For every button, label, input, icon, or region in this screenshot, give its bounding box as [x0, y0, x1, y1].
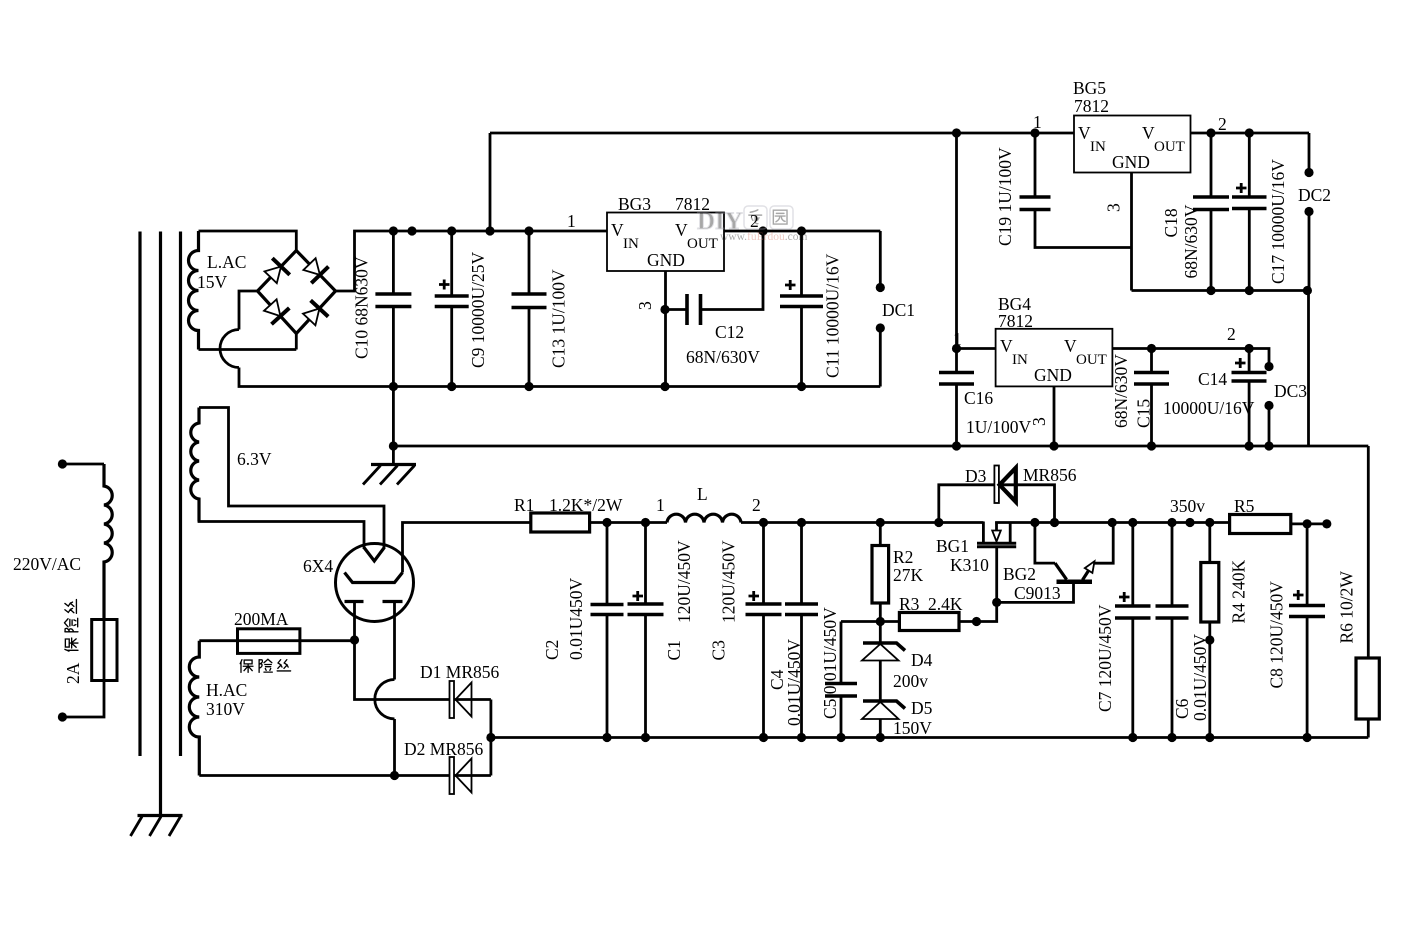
- resistor R1: [531, 513, 590, 532]
- capacitor C2: [602, 518, 611, 527]
- svg-text:C16: C16: [964, 388, 993, 408]
- svg-text:3: 3: [635, 301, 655, 310]
- regulator U BG4 7812: [996, 329, 1113, 387]
- svg-text:C12: C12: [715, 322, 744, 342]
- svg-text:C15: C15: [1134, 399, 1154, 428]
- svg-text:200MA: 200MA: [234, 609, 289, 629]
- label 保险丝: [240, 659, 290, 672]
- svg-text:BG2: BG2: [1003, 564, 1036, 584]
- svg-text:C1: C1: [664, 640, 684, 660]
- svg-text:BG1: BG1: [936, 536, 969, 556]
- capacitor C12: [687, 294, 701, 325]
- capacitor C15: [1147, 344, 1156, 353]
- svg-text:OUT: OUT: [1154, 139, 1185, 155]
- svg-text:27K: 27K: [893, 565, 924, 585]
- svg-text:D5: D5: [911, 698, 933, 718]
- capacitor C10: [389, 226, 398, 235]
- diode D2 MR856: [450, 757, 491, 794]
- H.AC bottom wire: [390, 771, 399, 780]
- svg-text:R1: R1: [514, 495, 534, 515]
- svg-text:C11 10000U/16V: C11 10000U/16V: [823, 253, 843, 378]
- wire: [62, 681, 104, 718]
- BG5 out wire: [1191, 132, 1310, 135]
- D1/D2 join to bottom rail: [486, 733, 495, 742]
- winding H.AC 310V: [189, 641, 199, 776]
- wire top bus to bridge: [199, 231, 297, 251]
- svg-text:H.AC: H.AC: [206, 680, 247, 700]
- svg-text:R6 10/2W: R6 10/2W: [1337, 571, 1357, 644]
- svg-text:2: 2: [752, 495, 761, 515]
- capacitor C5: [836, 733, 845, 742]
- wire 6.3V bottom to tube plate left: [199, 499, 364, 550]
- capacitor C1 (electrolytic): [641, 518, 650, 527]
- svg-text:7812: 7812: [1074, 96, 1109, 116]
- svg-text:R3: R3: [899, 594, 920, 614]
- gate feed wire C5-R3: [876, 617, 885, 626]
- cathode output wire to R1: [403, 523, 531, 573]
- svg-text:68N/630V: 68N/630V: [686, 347, 760, 367]
- svg-text:BG5: BG5: [1073, 78, 1106, 98]
- wire bridge left corner down with hop over winding wire: [239, 291, 258, 330]
- svg-text:7812: 7812: [998, 311, 1033, 331]
- svg-text:2.4K: 2.4K: [928, 594, 963, 614]
- transformer core: [140, 232, 181, 816]
- svg-text:C5 0.01U/450V: C5 0.01U/450V: [820, 607, 840, 719]
- diode bottom-right (cathode bar toward right corner): [311, 300, 329, 316]
- svg-text:0.01U/450V: 0.01U/450V: [784, 639, 804, 726]
- ground (transformer core): [131, 816, 183, 837]
- capacitor C7 (electrolytic): [1128, 518, 1137, 527]
- svg-text:C8 120U/450V: C8 120U/450V: [1266, 581, 1286, 689]
- ground rail: [389, 441, 398, 450]
- svg-text:C3: C3: [709, 640, 729, 661]
- svg-text:1: 1: [953, 329, 962, 349]
- svg-text:C2: C2: [542, 640, 562, 660]
- diode top-left (cathode bar toward top corner): [272, 258, 289, 275]
- svg-text:220V/AC: 220V/AC: [13, 554, 81, 574]
- svg-text:120U/450V: 120U/450V: [674, 540, 694, 623]
- BG5 bottom rail: [1132, 291, 1310, 447]
- svg-text:DC1: DC1: [882, 300, 915, 320]
- B+ wire: [590, 521, 1230, 524]
- svg-text:310V: 310V: [206, 699, 245, 719]
- svg-text:C18: C18: [1161, 208, 1181, 237]
- transistor BG1 K310 (FET): [977, 522, 1016, 603]
- wire winding bottom to bridge bottom: [199, 334, 297, 350]
- DC2 output terminals: [1308, 133, 1311, 291]
- capacitor C13: [524, 226, 533, 235]
- upper bus wire: [490, 132, 1074, 135]
- inductor L: [667, 514, 741, 522]
- svg-text:IN: IN: [1090, 139, 1106, 155]
- DC3 output terminals: [1264, 362, 1273, 371]
- pin 3 gnd wire: [660, 305, 669, 314]
- svg-text:D2 MR856: D2 MR856: [404, 739, 483, 759]
- riser to upper bus: [485, 226, 494, 235]
- AC input terminal top: [58, 459, 67, 468]
- diode D3 MR856: [934, 518, 943, 527]
- svg-text:C7 120U/450V: C7 120U/450V: [1095, 604, 1115, 712]
- primary winding 220V: [104, 464, 112, 620]
- svg-text:C17 10000U/16V: C17 10000U/16V: [1268, 159, 1288, 284]
- svg-text:C13 1U/100V: C13 1U/100V: [549, 269, 569, 368]
- svg-text:200v: 200v: [893, 671, 928, 691]
- svg-text:K310: K310: [950, 555, 989, 575]
- svg-text:6.3V: 6.3V: [237, 449, 272, 469]
- svg-text:C9013: C9013: [1014, 583, 1061, 603]
- 350v node: [1185, 518, 1194, 527]
- capacitor C4: [797, 518, 806, 527]
- svg-text:0.01U/450V: 0.01U/450V: [1190, 634, 1210, 721]
- svg-text:C9 10000U/25V: C9 10000U/25V: [468, 251, 488, 368]
- capacitor C8 (electrolytic): [1303, 519, 1312, 528]
- capacitor C17 (electrolytic): [1245, 128, 1254, 137]
- svg-text:3: 3: [1029, 417, 1049, 426]
- svg-text:68N/630V: 68N/630V: [1181, 204, 1201, 278]
- svg-text:IN: IN: [1012, 352, 1028, 368]
- zener D5 150V: [863, 701, 905, 709]
- fuse 2A: [103, 620, 106, 681]
- svg-text:D1 MR856: D1 MR856: [420, 662, 499, 682]
- diode D1 MR856: [450, 681, 491, 718]
- resistor R2: [876, 518, 885, 527]
- capacitor C11 (electrolytic): [797, 226, 806, 235]
- svg-text:15V: 15V: [197, 272, 228, 292]
- diode top-right (cathode bar toward right corner): [311, 267, 328, 284]
- svg-text:10000U/16V: 10000U/16V: [1163, 398, 1255, 418]
- svg-text:6X4: 6X4: [303, 556, 333, 576]
- bottom rail: [491, 736, 1368, 739]
- regulator U BG3 7812: [607, 213, 724, 272]
- capacitor C6: [1167, 518, 1176, 527]
- wire: [62, 463, 104, 466]
- svg-text:R5: R5: [1234, 496, 1255, 516]
- AC input terminal bottom: [58, 712, 67, 721]
- svg-text:68N/630V: 68N/630V: [1111, 354, 1131, 428]
- svg-text:R2: R2: [893, 547, 913, 567]
- svg-text:2A: 2A: [63, 662, 83, 684]
- svg-text:1: 1: [656, 495, 665, 515]
- svg-text:1U/100V: 1U/100V: [966, 417, 1032, 437]
- regulator U BG5 7812: [1074, 116, 1191, 173]
- tube 6X4: [336, 544, 414, 622]
- svg-text:120U/450V: 120U/450V: [719, 540, 739, 623]
- output terminal: [1322, 519, 1331, 528]
- svg-text:www.fuErdou.com: www.fuErdou.com: [720, 231, 807, 243]
- svg-text:GND: GND: [647, 250, 685, 270]
- capacitor C14 (electrolytic): [1245, 344, 1254, 353]
- svg-text:2: 2: [1218, 114, 1227, 134]
- ground symbol mid: [363, 465, 416, 485]
- resistor R4 240K: [1205, 518, 1214, 527]
- svg-text:L: L: [697, 484, 708, 504]
- BG5 gnd pin 3: [1130, 173, 1133, 291]
- riser from upper bus to BG4: [952, 128, 961, 137]
- bridge rectifier diamond: [258, 251, 336, 334]
- BG4 out wire: [1112, 349, 1269, 367]
- label 2A 保险丝 (vertical): [63, 600, 83, 684]
- resistor R6 10/2W: [1367, 446, 1370, 738]
- svg-text:C19 1U/100V: C19 1U/100V: [995, 147, 1015, 246]
- capacitor C18: [1206, 128, 1215, 137]
- svg-text:R4 240K: R4 240K: [1229, 559, 1249, 623]
- svg-text:3: 3: [1104, 203, 1124, 212]
- watermark: [697, 206, 807, 243]
- svg-text:MR856: MR856: [1023, 465, 1077, 485]
- svg-text:0.01U450V: 0.01U450V: [566, 577, 586, 660]
- transistor BG2 C9013: [992, 518, 1117, 607]
- zener D4 200v: [876, 733, 885, 742]
- svg-text:L.AC: L.AC: [207, 252, 246, 272]
- resistor R3: [899, 613, 959, 631]
- wire bridge right corner up to bus: [336, 231, 608, 291]
- svg-text:C10 68N630V: C10 68N630V: [352, 256, 372, 359]
- winding L.AC 15V: [189, 231, 199, 350]
- svg-text:OUT: OUT: [687, 236, 718, 252]
- DC1 output terminals: [879, 231, 882, 387]
- pin 2 wire and down to C12: [758, 226, 767, 235]
- fuse 200MA: [199, 639, 354, 642]
- heater left lead + fuse junction: [350, 635, 359, 644]
- svg-text:OUT: OUT: [1076, 352, 1107, 368]
- svg-text:D4: D4: [911, 650, 933, 670]
- BG4 gnd pin 3: [1049, 441, 1058, 450]
- heater right lead with hop: [393, 602, 396, 680]
- svg-text:C14: C14: [1198, 369, 1227, 389]
- svg-text:IN: IN: [623, 236, 639, 252]
- wire 6.3V top to tube plate right: [199, 408, 384, 550]
- svg-text:C6: C6: [1172, 698, 1192, 719]
- svg-text:GND: GND: [1112, 152, 1150, 172]
- resistor R5: [1230, 515, 1291, 534]
- svg-text:DC3: DC3: [1274, 381, 1307, 401]
- svg-text:350v: 350v: [1170, 496, 1205, 516]
- svg-text:D3: D3: [965, 466, 987, 486]
- svg-text:GND: GND: [1034, 365, 1072, 385]
- capacitor C3 (electrolytic): [759, 518, 768, 527]
- capacitor C19: [1030, 128, 1039, 137]
- svg-text:2: 2: [1227, 324, 1236, 344]
- winding 6.3V: [191, 408, 199, 522]
- svg-text:1.2K*/2W: 1.2K*/2W: [549, 495, 623, 515]
- svg-text:DC2: DC2: [1298, 185, 1331, 205]
- diode bottom-left (cathode bar toward bottom corner): [272, 308, 290, 324]
- svg-text:1: 1: [567, 211, 576, 231]
- svg-text:150V: 150V: [893, 718, 932, 738]
- capacitor C9 (electrolytic): [447, 226, 456, 235]
- svg-text:BG3: BG3: [618, 194, 651, 214]
- capacitor C16: [952, 441, 961, 450]
